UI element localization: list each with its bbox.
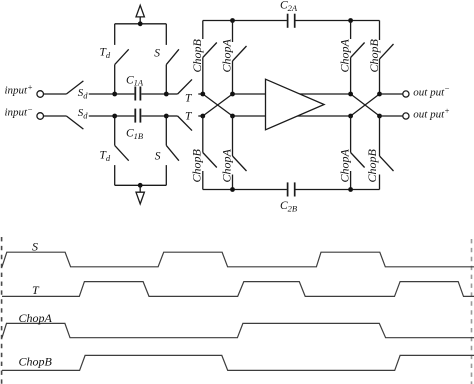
switch S bottom (166, 116, 179, 185)
node output- terminal (403, 91, 409, 97)
label T timing (32, 283, 40, 297)
svg-text:Sd: Sd (78, 87, 89, 100)
wire Sd to node B1 (89, 115, 115, 117)
label ChopB left bottom (190, 148, 204, 182)
node left X bottom-left (200, 114, 205, 119)
node left X bottom-right (230, 114, 235, 119)
wire bottom rail left loop (115, 184, 167, 186)
node right X bottom-right (377, 114, 382, 119)
label T row A (185, 92, 193, 104)
wire chopper bottom rail left segment (203, 189, 287, 191)
supply arrow down (136, 185, 144, 204)
node B2 (164, 114, 169, 119)
wire C1B to node B2 (141, 115, 166, 117)
svg-text:ChopB: ChopB (367, 38, 381, 72)
label C2B (280, 200, 297, 213)
switch ChopA right top (351, 21, 365, 95)
switch Sd (input+) (66, 81, 83, 94)
op-amp U1 (266, 79, 325, 130)
svg-text:ChopB: ChopB (190, 148, 204, 182)
node right X top-right (377, 92, 382, 97)
label S top (154, 48, 160, 60)
node right X top-left (348, 92, 353, 97)
label C1B (126, 128, 143, 141)
node A1 (112, 92, 117, 97)
node top rail x232 (230, 18, 235, 23)
svg-text:T: T (185, 92, 193, 104)
label input- (5, 104, 33, 119)
node bottom rail x350 (348, 187, 353, 192)
switch ChopA right bottom (351, 116, 365, 190)
node right X bottom-left (348, 114, 353, 119)
wire to output+ (380, 115, 403, 117)
svg-text:ChopB: ChopB (190, 38, 204, 72)
label output- (413, 84, 450, 99)
wire row B amp feed (233, 115, 351, 117)
svg-text:Td: Td (100, 47, 111, 60)
label ChopB right bottom (365, 148, 379, 182)
switch ChopB left top (203, 21, 217, 95)
label output+ (413, 106, 450, 121)
svg-text:ChopB: ChopB (19, 355, 53, 369)
capacitor C2B (288, 182, 295, 196)
svg-text:input−: input− (5, 104, 33, 119)
wire node B1 to C1B (115, 115, 135, 117)
node bottom rail x232 (230, 187, 235, 192)
wire top rail left loop (115, 23, 167, 25)
switch ChopA left top (233, 21, 247, 95)
node left X top-right (230, 92, 235, 97)
label ChopA timing (19, 311, 53, 325)
label ChopA right top (338, 38, 352, 72)
label Sd bottom (78, 107, 89, 120)
svg-text:Sd: Sd (78, 107, 89, 120)
node output+ terminal (403, 113, 409, 119)
wire node A1 to C1A (115, 93, 135, 95)
label C2A (280, 0, 298, 13)
node top rail junction (138, 21, 143, 26)
wire Sd to node A1 (89, 93, 115, 95)
svg-text:Td: Td (100, 150, 111, 163)
svg-text:T: T (32, 283, 40, 297)
capacitor C1B (135, 109, 140, 123)
wire cross right X diagonal 1 (351, 94, 380, 116)
node left X top-left (200, 92, 205, 97)
svg-text:out put−: out put− (413, 84, 450, 99)
label ChopA left top (220, 38, 234, 72)
wire input+ to switch Sd (44, 93, 67, 95)
label ChopB timing (19, 355, 53, 369)
svg-text:ChopA: ChopA (338, 148, 352, 182)
wire input- to switch Sd (44, 115, 67, 117)
switch T row A (166, 79, 203, 94)
wire chopper top rail right segment (296, 20, 380, 22)
label S timing (32, 239, 38, 253)
supply arrow up (136, 5, 144, 24)
capacitor C1A (135, 87, 140, 101)
switch S top (166, 24, 179, 94)
wire to output- (380, 93, 403, 95)
svg-text:ChopA: ChopA (19, 311, 53, 325)
switch Td top (115, 24, 129, 94)
label T row B (185, 110, 193, 122)
switch ChopB right bottom (380, 116, 394, 190)
label input+ (5, 82, 33, 97)
wire cross left X diagonal 2 (203, 94, 233, 116)
svg-text:ChopA: ChopA (338, 38, 352, 72)
node A2 (164, 92, 169, 97)
switch T row B (166, 116, 203, 131)
node input- terminal (37, 113, 44, 120)
label ChopB right top (367, 38, 381, 72)
svg-text:C1B: C1B (126, 128, 143, 141)
wire chopper top rail left segment (203, 20, 287, 22)
svg-text:out put+: out put+ (413, 106, 450, 121)
wire row A amp feed (233, 93, 351, 95)
svg-text:S: S (154, 48, 160, 60)
switch ChopB left bottom (203, 116, 217, 190)
svg-text:C2A: C2A (280, 0, 298, 13)
node input+ terminal (37, 91, 44, 98)
timing dashed axis right (471, 239, 473, 384)
timing dashed axis left (1, 237, 3, 384)
label ChopB left top (190, 38, 204, 72)
svg-text:C2B: C2B (280, 200, 297, 213)
label Sd top (78, 87, 89, 100)
svg-text:input+: input+ (5, 82, 33, 97)
svg-text:ChopA: ChopA (220, 38, 234, 72)
label S bottom (155, 151, 161, 163)
wire cross left X diagonal 1 (203, 94, 233, 116)
wire chopper bottom rail right segment (296, 189, 380, 191)
wire cross right X diagonal 2 (351, 94, 380, 116)
label Td top (100, 47, 111, 60)
wire C1A to node A2 (141, 93, 166, 95)
node top rail x350 (348, 18, 353, 23)
label ChopA left bottom (220, 148, 234, 182)
label C1A (126, 74, 144, 87)
signal T waveform (2, 282, 474, 297)
switch Sd (input-) (66, 116, 83, 129)
svg-text:S: S (32, 239, 38, 253)
switch ChopA left bottom (233, 116, 247, 190)
signal S waveform (2, 252, 474, 267)
signal ChopA waveform (2, 323, 474, 337)
signal ChopB waveform (2, 355, 474, 370)
capacitor C2A (288, 14, 295, 28)
label ChopA right bottom (338, 148, 352, 182)
node B1 (112, 114, 117, 119)
svg-text:S: S (155, 151, 161, 163)
node bottom rail junction (138, 183, 143, 188)
label Td bottom (100, 150, 111, 163)
switch Td bottom (115, 116, 129, 185)
svg-text:C1A: C1A (126, 74, 144, 87)
switch ChopB right top (380, 21, 394, 95)
svg-text:ChopA: ChopA (220, 148, 234, 182)
svg-text:T: T (185, 110, 193, 122)
svg-text:ChopB: ChopB (365, 148, 379, 182)
